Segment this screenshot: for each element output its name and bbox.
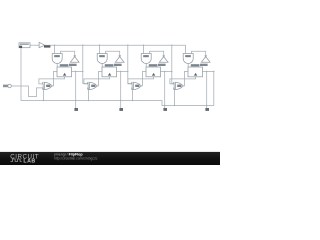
svg-text:LAB: LAB [23,159,35,165]
svg-text:http://circuitlab.com/c/rxbgc2: http://circuitlab.com/c/rxbgc2c [54,157,98,161]
